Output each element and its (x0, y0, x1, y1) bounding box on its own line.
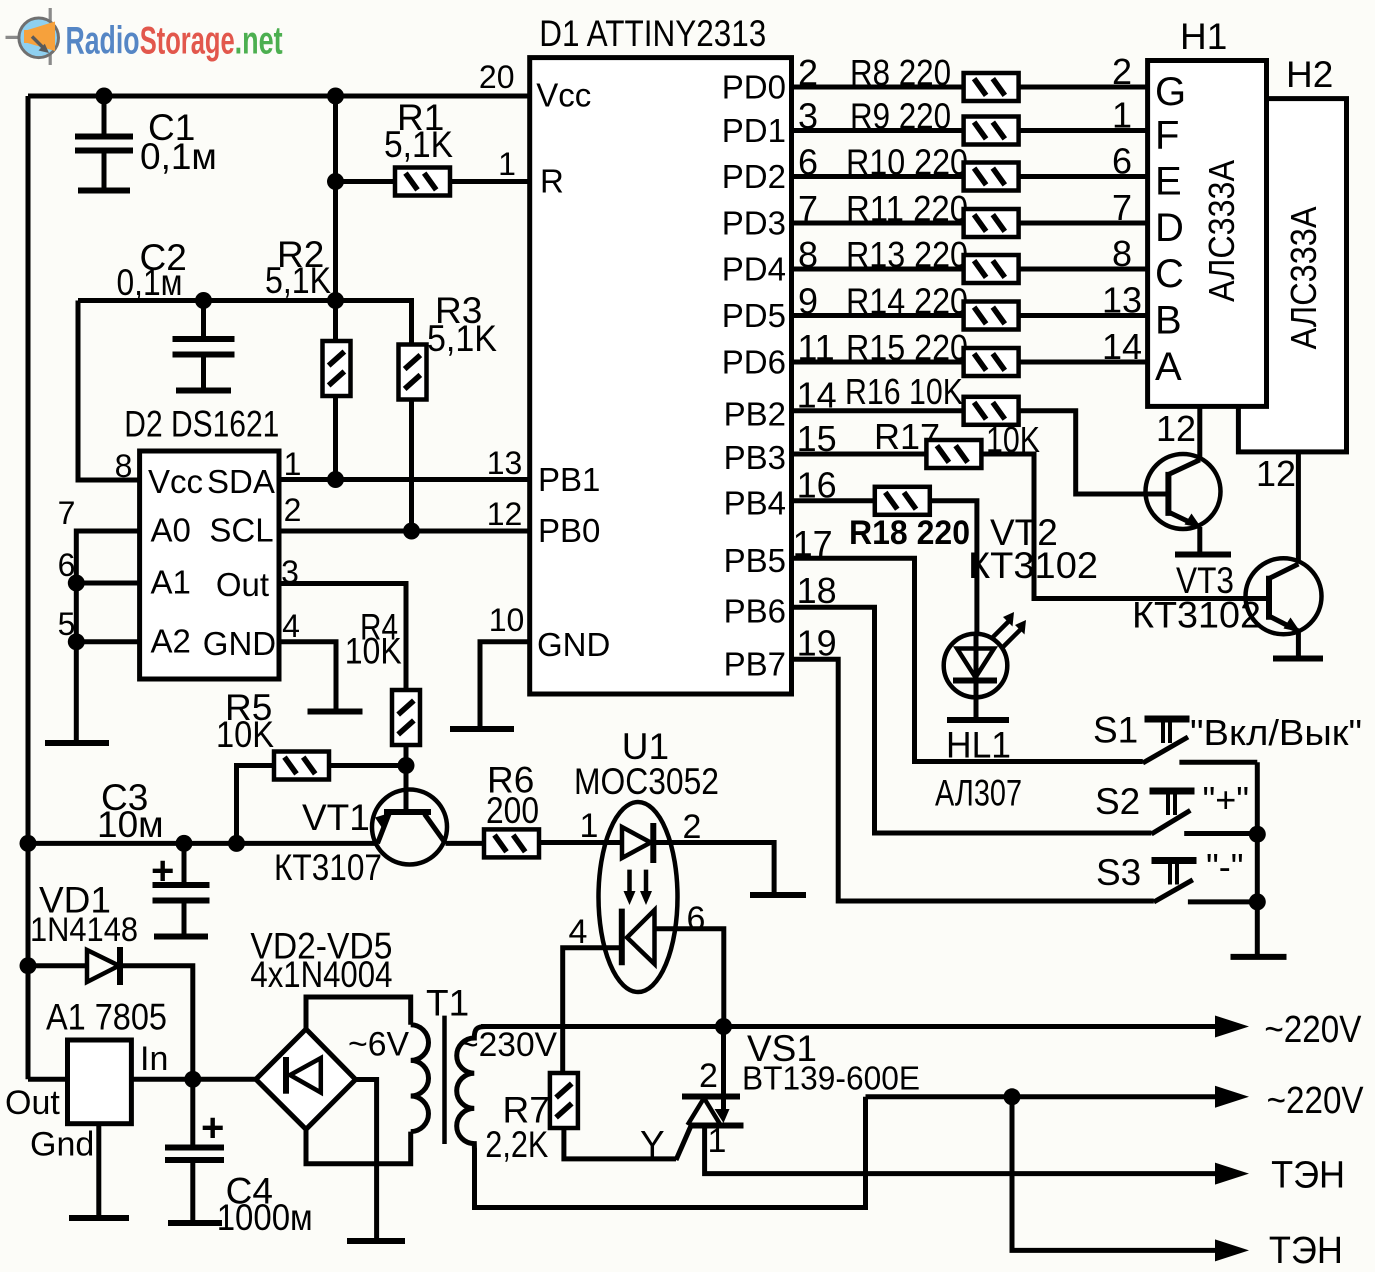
gate VS1 (676, 1124, 692, 1161)
wire D2 SDA (279, 477, 530, 482)
transistor VT1 (372, 790, 447, 865)
svg-text:10: 10 (489, 602, 525, 638)
ic D2 box (140, 451, 279, 679)
wire VT1 collector (446, 841, 485, 846)
node rail-R5 (228, 835, 245, 852)
svg-text:Y: Y (640, 1124, 665, 1165)
ground HL1 (947, 717, 1009, 723)
wire D2 Out (279, 584, 406, 691)
svg-text:7: 7 (1112, 187, 1132, 228)
svg-text:14: 14 (1102, 326, 1142, 367)
winding T1 secondary (457, 1027, 486, 1151)
svg-text:R11 220: R11 220 (846, 188, 968, 229)
svg-text:2,2K: 2,2K (485, 1124, 548, 1165)
svg-text:R10 220: R10 220 (846, 142, 968, 183)
resistor R7 (550, 1073, 578, 1128)
svg-text:B: B (1155, 299, 1182, 343)
svg-text:PD1: PD1 (722, 112, 786, 149)
svg-text:13: 13 (1102, 280, 1142, 321)
svg-text:A1: A1 (151, 564, 191, 601)
svg-text:+: + (201, 1106, 224, 1150)
svg-text:0,1м: 0,1м (140, 136, 217, 177)
wire VS1 pin1 out (705, 1126, 1216, 1174)
arrow 220V line2 (1215, 1086, 1249, 1108)
ground D1 GND (450, 726, 514, 732)
svg-text:4: 4 (282, 608, 300, 644)
wire R10 to H1 (1019, 174, 1148, 179)
svg-text:HL1: HL1 (946, 724, 1011, 765)
svg-text:1: 1 (498, 146, 516, 182)
svg-text:Gnd: Gnd (30, 1126, 94, 1164)
wire R3 bottom (409, 400, 414, 532)
wire secondary bottom (475, 1097, 866, 1208)
svg-text:MOC3052: MOC3052 (574, 761, 719, 802)
led U1 input (622, 827, 651, 858)
led HL1 (944, 634, 1008, 698)
svg-text:3: 3 (798, 96, 818, 137)
svg-text:8: 8 (1112, 233, 1132, 274)
node rail-C3 (176, 835, 193, 852)
wire R1 right (450, 179, 530, 184)
node rail-R1R2 (327, 88, 344, 105)
wire TEN line2 (1012, 1097, 1216, 1251)
svg-text:1: 1 (580, 807, 599, 845)
ground C2 (176, 388, 231, 394)
svg-text:КТ3107: КТ3107 (274, 847, 382, 888)
core T1 (442, 1016, 447, 1144)
svg-text:1000м: 1000м (217, 1197, 313, 1238)
wire PB7 to S3 (792, 659, 1154, 901)
svg-text:0,1м: 0,1м (117, 262, 183, 303)
svg-text:8: 8 (115, 448, 133, 484)
svg-text:Out: Out (5, 1084, 60, 1122)
svg-text:АЛ307: АЛ307 (935, 772, 1022, 813)
node TEN branch (1004, 1088, 1021, 1105)
wire PB6 to S2 (792, 607, 1152, 833)
svg-text:11: 11 (797, 327, 834, 368)
svg-text:G: G (1155, 70, 1186, 114)
resistor R4 (392, 690, 420, 745)
wire PB2 to R16 (792, 408, 964, 413)
wire PD4 to R13 (792, 267, 964, 272)
resistor R11 (964, 209, 1019, 237)
svg-text:Vcc: Vcc (536, 77, 591, 114)
ground VT3 (1273, 656, 1323, 662)
ground VT2 (1175, 552, 1231, 558)
wire primary bottom (306, 1129, 411, 1163)
svg-text:C: C (1155, 252, 1184, 296)
led HL1 arrows (991, 621, 1021, 647)
wire left bus to VD1 (28, 963, 87, 968)
svg-text:PD3: PD3 (722, 205, 786, 242)
node VD1 (20, 957, 37, 974)
svg-text:+: + (151, 849, 174, 893)
wire VS1 pin2 (721, 1027, 726, 1111)
svg-text:R15 220: R15 220 (846, 327, 968, 368)
wire R18 to HL1 (930, 501, 977, 634)
svg-text:R: R (540, 163, 564, 200)
svg-text:ТЭН: ТЭН (1269, 1230, 1343, 1272)
wire top +5V rail (28, 94, 530, 99)
svg-text:GND: GND (537, 626, 610, 663)
node S3 bus (1249, 893, 1266, 910)
svg-text:.net: .net (235, 20, 283, 63)
wire PB5 to S1 (792, 558, 1143, 761)
wire R11 to H1 (1019, 221, 1148, 226)
wire D1 GND pin10 (480, 642, 530, 727)
svg-text:PB7: PB7 (724, 646, 786, 683)
wire PD6 to R15 (792, 360, 964, 365)
svg-text:14: 14 (797, 375, 837, 416)
resistor R3 (399, 345, 427, 400)
svg-text:R14 220: R14 220 (846, 281, 968, 322)
svg-text:~6V: ~6V (348, 1026, 409, 1064)
winding T1 primary (411, 1025, 429, 1132)
svg-text:D: D (1155, 206, 1184, 250)
svg-text:H1: H1 (1180, 16, 1227, 57)
svg-text:In: In (140, 1040, 168, 1078)
ground D2 GND (308, 709, 363, 715)
svg-text:6: 6 (58, 547, 76, 583)
svg-text:"+": "+" (1203, 779, 1250, 820)
wire bridge top to primary (306, 997, 411, 1029)
wire C2 row (78, 298, 338, 303)
node R4R5 base (398, 757, 415, 774)
capacitor C4 (190, 1079, 195, 1146)
triac U1 output (627, 910, 655, 964)
wire U1 pin4 (563, 948, 622, 1073)
wire S1 right (1179, 760, 1257, 765)
svg-text:1: 1 (1112, 95, 1132, 136)
svg-text:5: 5 (58, 606, 76, 642)
svg-text:2: 2 (798, 52, 818, 93)
ground U1 pin2 (750, 892, 806, 898)
svg-text:PB0: PB0 (538, 512, 600, 549)
svg-text:R18 220: R18 220 (849, 514, 970, 552)
node R3-SCL (403, 523, 420, 540)
svg-text:10K: 10K (345, 631, 402, 672)
node A2 (68, 633, 85, 650)
svg-text:12: 12 (487, 496, 523, 532)
resistor R14 (964, 302, 1019, 330)
svg-text:2: 2 (699, 1057, 718, 1095)
wire S bus down (1255, 762, 1260, 955)
wire PD5 to R14 (792, 313, 964, 318)
svg-text:PD5: PD5 (722, 297, 786, 334)
svg-text:КТ3102: КТ3102 (968, 545, 1098, 586)
wire H1 pin12 (1197, 406, 1202, 460)
svg-text:2: 2 (1112, 51, 1132, 92)
wire R7 bottom to gate (564, 1128, 676, 1159)
svg-text:PB5: PB5 (724, 542, 786, 579)
wire A1 in (131, 1077, 255, 1082)
svg-text:1: 1 (284, 446, 302, 482)
wire R2 top (333, 301, 338, 342)
resistor R10 (964, 163, 1019, 191)
triac VS1 (715, 1109, 730, 1123)
wire D2 A1 (76, 581, 139, 586)
svg-text:PD0: PD0 (722, 69, 786, 106)
svg-text:3: 3 (281, 554, 299, 590)
svg-text:R13 220: R13 220 (846, 234, 968, 275)
wire R5 left (237, 766, 275, 844)
wire R5 right (329, 763, 406, 768)
capacitor C1 (102, 96, 107, 135)
resistor R6 (484, 829, 539, 857)
transistor VT2 (1146, 454, 1221, 529)
svg-text:АЛС333А: АЛС333А (1283, 207, 1324, 350)
svg-text:ТЭН: ТЭН (1271, 1155, 1345, 1197)
switch S2 (1150, 788, 1195, 795)
svg-text:R9 220: R9 220 (850, 96, 951, 137)
svg-text:200: 200 (486, 790, 539, 831)
logo RadioStorage icon (6, 8, 51, 65)
svg-text:1N4148: 1N4148 (30, 911, 138, 949)
wire R14 to H1 (1019, 313, 1148, 318)
svg-text:BT139-600E: BT139-600E (742, 1060, 920, 1097)
svg-text:~220V: ~220V (1267, 1080, 1365, 1122)
node C2 (195, 292, 212, 309)
svg-text:A2: A2 (151, 623, 191, 660)
wire U1 pin6 (655, 929, 724, 1027)
wire S3 right (1188, 899, 1257, 904)
wire main rail to VT1 (28, 841, 377, 846)
svg-text:5,1K: 5,1K (384, 124, 453, 165)
wire PB4 to R18 (792, 498, 875, 503)
svg-text:PB6: PB6 (724, 593, 786, 630)
ground C4 (168, 1220, 222, 1226)
svg-text:Out: Out (216, 566, 269, 603)
wire PD2 to R10 (792, 174, 964, 179)
wire D2 A0 (76, 531, 139, 743)
svg-text:5,1K: 5,1K (265, 260, 331, 301)
capacitor C3 (182, 843, 187, 883)
wire A1 out (28, 1077, 68, 1082)
svg-text:7: 7 (798, 188, 818, 229)
node R2 top (327, 292, 344, 309)
wire R16 to VT2 base (1019, 411, 1169, 494)
switch S3 (1152, 857, 1197, 864)
svg-text:"-": "-" (1206, 846, 1244, 887)
ic H1 box (1148, 61, 1267, 407)
svg-text:Vcc: Vcc (148, 463, 203, 500)
ic D1 box (530, 58, 792, 694)
capacitor C2 (201, 301, 206, 338)
wire VT3 emitter (1296, 631, 1301, 656)
svg-text:10м: 10м (97, 804, 164, 845)
svg-text:S2: S2 (1095, 781, 1140, 822)
svg-text:GND: GND (203, 625, 276, 662)
svg-text:E: E (1155, 160, 1182, 204)
wire R1 vertical feed (333, 96, 338, 302)
svg-text:1: 1 (708, 1122, 727, 1160)
svg-text:S3: S3 (1096, 852, 1141, 893)
node U1pin6-mains (715, 1018, 732, 1035)
svg-text:12: 12 (1156, 408, 1196, 449)
svg-text:"Вкл/Вык": "Вкл/Вык" (1190, 712, 1362, 753)
svg-text:Storage: Storage (140, 20, 235, 63)
svg-text:S1: S1 (1093, 709, 1138, 750)
svg-text:A0: A0 (151, 511, 191, 548)
wire U1 pin1 (539, 840, 622, 845)
svg-text:4: 4 (569, 913, 588, 951)
wire PD3 to R11 (792, 221, 964, 226)
ground D2 address pins (45, 740, 109, 746)
svg-text:D1 ATTINY2313: D1 ATTINY2313 (539, 13, 766, 54)
wire R8 to H1 (1019, 85, 1148, 90)
svg-text:13: 13 (487, 445, 523, 481)
diode VD1 (87, 950, 119, 982)
ground bridge (347, 1238, 405, 1244)
svg-text:15: 15 (797, 418, 837, 459)
wire bridge right to ground (356, 1080, 377, 1240)
svg-text:H2: H2 (1286, 54, 1333, 95)
resistor R5 (274, 752, 329, 780)
ground C1 (78, 188, 130, 194)
svg-text:PB1: PB1 (538, 461, 600, 498)
node R1 branch (327, 173, 344, 190)
wire 220V line2 (866, 1094, 1217, 1099)
resistor R13 (964, 255, 1019, 283)
svg-text:SCL: SCL (209, 511, 273, 548)
svg-text:R16 10K: R16 10K (845, 371, 963, 412)
svg-text:9: 9 (798, 281, 818, 322)
svg-text:КТ3102: КТ3102 (1132, 595, 1261, 636)
ic H2 box (1238, 99, 1346, 452)
wire PD0 to R8 (792, 85, 964, 90)
svg-text:D2 DS1621: D2 DS1621 (124, 404, 279, 445)
svg-text:2: 2 (284, 492, 302, 528)
svg-text:16: 16 (797, 465, 837, 506)
svg-text:PD4: PD4 (722, 251, 786, 288)
svg-text:АЛС333А: АЛС333А (1201, 160, 1242, 302)
svg-text:VT1: VT1 (302, 797, 370, 838)
wire VT2 emitter (1197, 527, 1202, 553)
arrow 220V line1 (1215, 1016, 1249, 1038)
wire R9 to H1 (1019, 128, 1148, 133)
transistor VT3 (1246, 558, 1322, 634)
wire D2 GND pin4 (279, 642, 336, 709)
svg-text:PD2: PD2 (722, 158, 786, 195)
ground A1 (69, 1215, 129, 1221)
svg-text:Radio: Radio (66, 20, 140, 63)
svg-text:PB4: PB4 (724, 485, 786, 522)
resistor R16 (964, 397, 1019, 425)
resistor R15 (964, 348, 1019, 376)
wire S2 right (1184, 831, 1257, 836)
bridge VD2-VD5 (256, 1029, 356, 1129)
wire H2 pin12 (1296, 452, 1301, 562)
resistor R17 (926, 440, 981, 468)
wire R3 top (336, 301, 412, 345)
resistor R1 (395, 168, 450, 196)
wire 220V line1 (481, 1024, 1216, 1029)
svg-text:18: 18 (797, 570, 837, 611)
ic A1 box (68, 1040, 132, 1124)
node R2-SDA (327, 471, 344, 488)
svg-text:6: 6 (687, 900, 706, 938)
svg-text:5,1K: 5,1K (427, 318, 497, 359)
svg-text:6: 6 (798, 142, 818, 183)
node A1 (68, 575, 85, 592)
resistor R18 (875, 487, 930, 515)
svg-text:8: 8 (798, 234, 818, 275)
node rail-C1 (96, 88, 113, 105)
wire R13 to H1 (1019, 267, 1148, 272)
wire R1 left (336, 179, 396, 184)
opto arrows U1 (630, 870, 647, 896)
node S2 bus (1249, 826, 1266, 843)
svg-text:7: 7 (58, 495, 76, 531)
svg-text:PD6: PD6 (722, 344, 786, 381)
svg-text:19: 19 (797, 623, 837, 664)
wire R2 bottom (333, 396, 338, 480)
node C4-In (184, 1071, 201, 1088)
wire D2 Vcc feed (78, 301, 140, 481)
wire D2 A2 (76, 639, 139, 644)
ground S buttons (1231, 954, 1287, 960)
svg-text:F: F (1155, 114, 1179, 158)
wire U1 pin2 (653, 843, 774, 895)
svg-text:PB3: PB3 (724, 439, 786, 476)
wire PD1 to R9 (792, 128, 964, 133)
resistor R2 (323, 341, 351, 396)
wire PB3 to R17 (792, 452, 927, 457)
wire R17 to VT3 base (981, 454, 1269, 599)
wire R4 bottom (404, 745, 409, 766)
wire VD1 right (120, 966, 193, 1080)
resistor R8 (964, 73, 1019, 101)
svg-text:~230V: ~230V (459, 1026, 557, 1064)
svg-text:6: 6 (1112, 141, 1132, 182)
svg-text:T1: T1 (426, 982, 469, 1023)
svg-text:R8 220: R8 220 (850, 52, 951, 93)
arrow TEN line2 (1215, 1239, 1249, 1261)
svg-text:SDA: SDA (207, 463, 275, 500)
svg-text:12: 12 (1256, 453, 1296, 494)
svg-text:PB2: PB2 (724, 396, 786, 433)
svg-text:A1 7805: A1 7805 (46, 997, 167, 1038)
wire R15 to H1 (1019, 360, 1148, 365)
svg-text:17: 17 (793, 523, 833, 564)
arrow TEN line1 (1215, 1163, 1249, 1185)
wire D2 SCL (279, 529, 530, 534)
resistor R9 (964, 117, 1019, 145)
switch S1 (1145, 716, 1190, 723)
node rail-left (20, 835, 37, 852)
wire A1 gnd (96, 1124, 101, 1216)
optocoupler U1 ellipse (599, 802, 678, 992)
svg-text:~220V: ~220V (1264, 1009, 1362, 1051)
svg-text:A: A (1155, 345, 1182, 389)
svg-text:20: 20 (479, 59, 515, 95)
wire left bus (26, 96, 31, 1079)
svg-text:10K: 10K (216, 714, 274, 755)
svg-text:4x1N4004: 4x1N4004 (250, 954, 392, 995)
ground C3 (154, 934, 208, 940)
svg-text:2: 2 (683, 808, 702, 846)
